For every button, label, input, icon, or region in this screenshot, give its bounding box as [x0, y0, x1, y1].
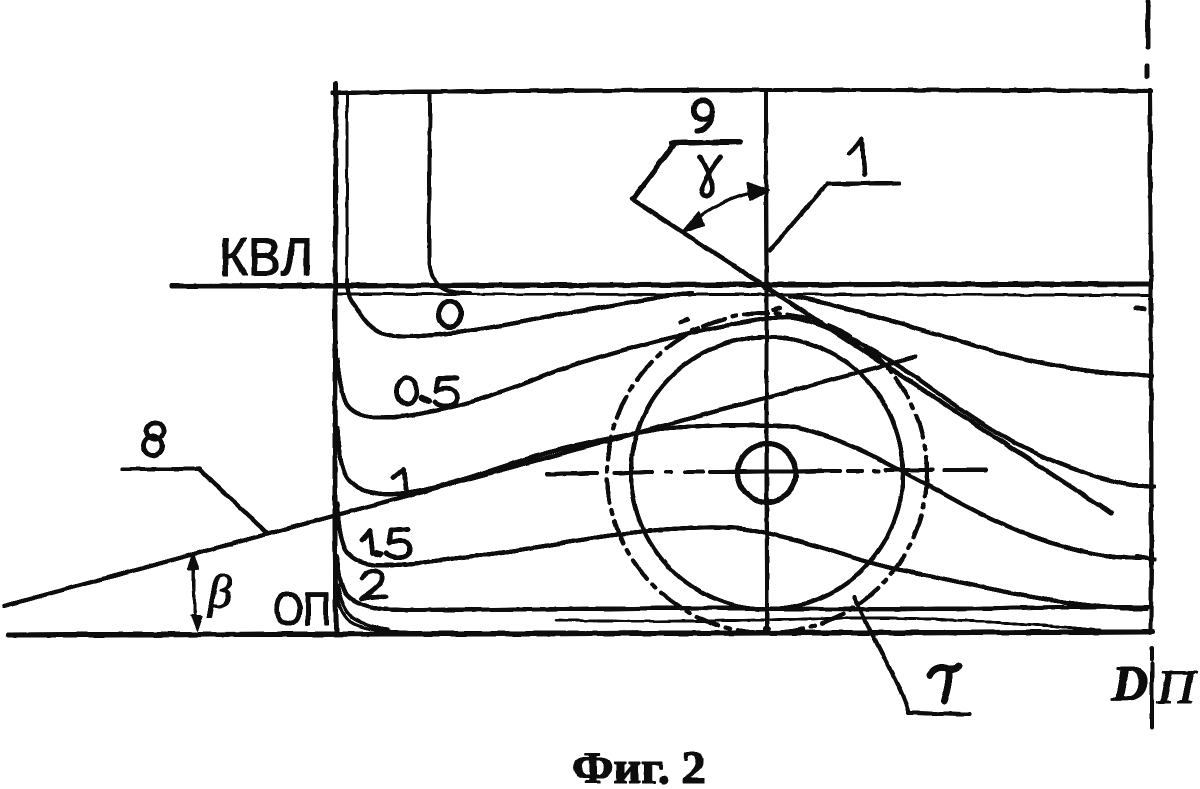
- leader for label 9: [633, 142, 740, 199]
- gamma angle arc: [688, 192, 757, 226]
- svg-text:Фиг. 2: Фиг. 2: [572, 742, 706, 789]
- baseline OP bottom: [8, 632, 1153, 635]
- label 1 digit: [393, 469, 406, 489]
- label 1.5 digits: [362, 529, 410, 558]
- waterline 0 left branch: [347, 280, 692, 337]
- label 7 digit: [930, 666, 959, 701]
- waterline 1 end tick: [1137, 556, 1154, 559]
- DP dashed centerline below frame: [1150, 648, 1154, 728]
- svg-text:ОП: ОП: [273, 583, 331, 635]
- beta double arrow: [194, 557, 197, 628]
- KVL waterline: [172, 284, 1150, 286]
- speck on right frame: [1136, 308, 1144, 309]
- leader for label 7: [854, 597, 970, 714]
- stray dash marks near tip circle top: [680, 308, 780, 330]
- gamma arc arrowhead left: [681, 212, 704, 233]
- svg-text:β: β: [207, 566, 232, 618]
- keel curve a: [338, 585, 388, 629]
- keel curve b: [337, 595, 461, 633]
- frame left vertical: [335, 84, 336, 634]
- transom vertical with corner: [429, 93, 470, 293]
- leader for label 8: [122, 469, 268, 534]
- inclined keel line 8: [4, 357, 915, 606]
- ink blob at KVL axis crossing: [762, 281, 772, 291]
- beta arrow head top: [188, 553, 199, 570]
- label gamma: [700, 157, 721, 196]
- propeller hub circle: [738, 444, 796, 502]
- waterline 0 end tick: [1130, 374, 1152, 376]
- gamma arc arrowhead right: [747, 182, 769, 201]
- label 2 digit: [361, 571, 386, 599]
- propeller axis vertical line 1: [766, 93, 767, 632]
- waterline 0.5 end tick: [1133, 485, 1154, 487]
- second waterline at y294: [338, 294, 1149, 295]
- frame top line: [333, 90, 1151, 93]
- label 1 station digit: [849, 139, 865, 175]
- frame right vertical: [1150, 90, 1151, 633]
- waterline 0.5: [337, 317, 1141, 486]
- waterline 1: [337, 425, 1146, 558]
- label 9 digit: [694, 101, 713, 132]
- svg-text:КВЛ: КВЛ: [219, 228, 313, 287]
- svg-text:П: П: [1156, 661, 1199, 714]
- line 9 end thick tip: [1100, 505, 1111, 513]
- waterline 2: [337, 556, 1150, 610]
- DP dashed centerline above frame: [1147, 2, 1148, 76]
- ink blob at baseline axis crossing: [763, 626, 771, 634]
- waterline 0 right branch: [790, 296, 1138, 375]
- label 0.5 digits: [397, 378, 457, 406]
- propeller tip clearance dash-dot circle: [607, 313, 927, 633]
- beta arrow head bottom: [191, 615, 202, 631]
- lower hull line to sternpost: [556, 618, 1100, 630]
- waterline 1.5: [337, 503, 1146, 609]
- label 8 digit: [144, 423, 164, 456]
- svg-text:D: D: [1111, 655, 1148, 711]
- inclined line 9 (stern tube axis): [632, 199, 1111, 513]
- station-0 vertical: [346, 92, 349, 280]
- propeller disc circle: [631, 337, 903, 609]
- leader for label 1: [770, 183, 899, 250]
- propeller shaft dash-dot horizontal centerline: [547, 470, 986, 474]
- label 0 digit: [439, 301, 461, 327]
